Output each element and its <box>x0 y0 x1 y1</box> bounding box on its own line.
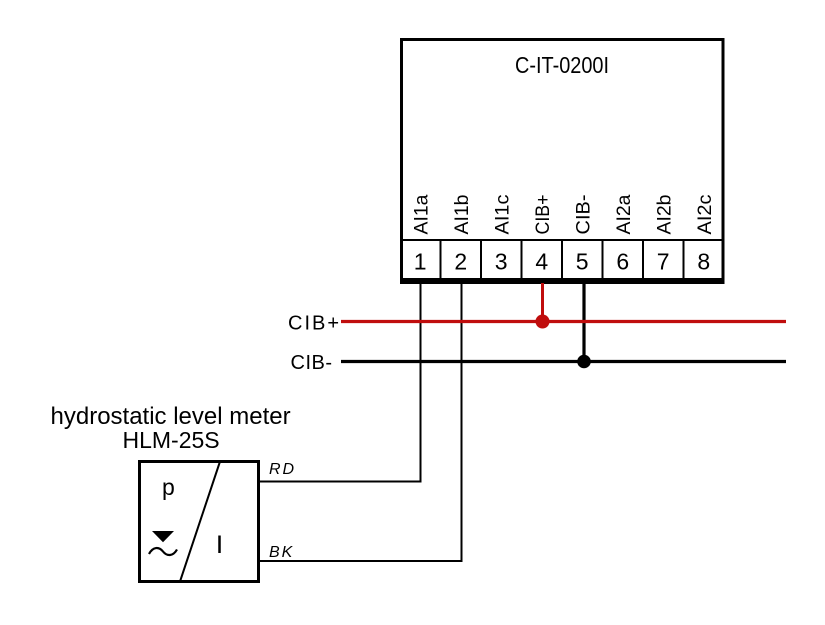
device box bottom edge <box>400 280 725 284</box>
svg-text:2: 2 <box>454 249 467 275</box>
svg-text:AI1a: AI1a <box>410 194 432 234</box>
svg-text:AI1c: AI1c <box>491 194 513 234</box>
wire terminal1 to RD vertical <box>420 283 422 482</box>
wire terminal2 to BK vertical <box>461 283 463 561</box>
terminal strip top line <box>400 239 724 241</box>
sensor box HLM-25S <box>140 462 259 582</box>
svg-text:5: 5 <box>576 249 589 275</box>
svg-text:p: p <box>162 474 175 500</box>
wire CIB+ drop from terminal 4 <box>541 283 544 322</box>
svg-text:8: 8 <box>697 249 710 275</box>
wire CIB- drop from terminal 5 <box>582 283 585 362</box>
wire RD horizontal <box>259 481 422 483</box>
svg-text:AI2a: AI2a <box>613 194 635 234</box>
sensor diagonal divider <box>180 462 220 582</box>
svg-text:BK: BK <box>269 544 294 561</box>
svg-text:AI2b: AI2b <box>653 194 675 234</box>
svg-text:hydrostatic level meter: hydrostatic level meter <box>51 403 291 430</box>
svg-text:CIB+: CIB+ <box>532 195 554 235</box>
svg-text:RD: RD <box>269 461 296 478</box>
svg-text:4: 4 <box>535 249 548 275</box>
svg-text:6: 6 <box>616 249 629 275</box>
terminal numbers 1-8 <box>414 249 710 275</box>
svg-text:3: 3 <box>495 249 508 275</box>
svg-text:C-IT-0200I: C-IT-0200I <box>515 52 609 78</box>
svg-text:CIB-: CIB- <box>291 352 333 374</box>
svg-text:AI1b: AI1b <box>451 194 473 234</box>
level symbol wave <box>149 548 177 555</box>
svg-text:1: 1 <box>414 249 427 275</box>
svg-text:CIB-: CIB- <box>572 195 594 235</box>
svg-text:CIB+: CIB+ <box>288 313 341 335</box>
CIB+ bus line (red) <box>341 320 786 323</box>
svg-text:HLM-25S: HLM-25S <box>123 427 220 453</box>
level symbol triangle <box>152 531 174 542</box>
svg-text:7: 7 <box>657 249 670 275</box>
device box U1 C-IT-0200I <box>402 40 724 280</box>
junction dot CIB+ <box>536 315 550 329</box>
sensor label I <box>218 536 221 554</box>
CIB- bus line (black) <box>341 360 786 363</box>
svg-text:AI2c: AI2c <box>694 194 716 234</box>
junction dot CIB- <box>577 355 591 369</box>
wire BK horizontal <box>259 560 463 562</box>
terminal dividers <box>441 240 684 280</box>
